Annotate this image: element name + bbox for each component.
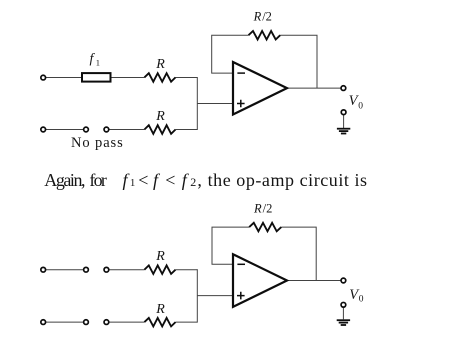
wire bus to op-amp plus input (bottom circuit) (197, 295, 233, 297)
op-amp U2 minus sign (237, 263, 245, 265)
terminal circle gap-left (bottom circuit branch 2) (84, 320, 89, 325)
filter box f1 (82, 73, 111, 82)
wire gap to resistor R (top circuit branch 2) (109, 129, 144, 131)
feedback resistor R/2 (bottom circuit) (249, 223, 281, 232)
wire feedback resistor R/2 to output node (top circuit) (280, 35, 317, 88)
wire op-amp minus input to feedback loop (top circuit) (212, 35, 249, 73)
feedback resistor R/2 (top circuit) (249, 31, 281, 40)
wire op-amp output to V0 terminal (bottom circuit) (287, 280, 341, 282)
terminal circle gap-right (bottom circuit branch 2) (104, 320, 109, 325)
svg-text:R: R (155, 249, 165, 264)
wire input2 to gap (bottom circuit) (46, 321, 83, 323)
wire gap to resistor R (bottom circuit branch 2) (109, 321, 144, 323)
svg-text:1: 1 (130, 177, 136, 189)
ground symbol (bottom circuit) (337, 320, 350, 325)
wire resistor to bus (bottom circuit branch 1) (176, 269, 198, 271)
wire op-amp output to V0 terminal (top circuit) (287, 87, 341, 89)
svg-text:0: 0 (358, 101, 363, 111)
terminal circle gap-left "No pass" (top circuit) (84, 127, 89, 132)
wire op-amp minus input to feedback loop (bottom circuit) (212, 227, 249, 264)
svg-text:R: R (155, 57, 165, 72)
wire input1 to gap (bottom circuit) (46, 269, 83, 271)
resistor R (top circuit branch 2) (144, 125, 175, 134)
terminal circle input1 (top circuit) (41, 75, 46, 80)
svg-text:f: f (182, 170, 190, 190)
wire input1 to f1 box (top circuit) (46, 77, 81, 79)
wire ground stem (bottom circuit) (342, 307, 344, 319)
svg-text:<: < (165, 170, 175, 190)
svg-text:Again,: Again, (44, 170, 85, 190)
terminal circle gap-left (bottom circuit branch 1) (84, 267, 89, 272)
resistor R (top circuit branch 1) (144, 73, 175, 82)
wire input bus vertical (top circuit) (196, 77, 198, 130)
svg-text:for: for (89, 170, 107, 190)
resistor R (bottom circuit branch 2) (144, 318, 175, 327)
svg-text:2: 2 (190, 175, 196, 189)
op-amp U1 minus sign (237, 72, 245, 74)
wire f1 box to resistor R (top circuit) (112, 77, 145, 79)
resistor R (bottom circuit branch 1) (144, 265, 175, 274)
terminal circle gap-right (bottom circuit branch 1) (104, 267, 109, 272)
op-amp U1 plus sign (237, 100, 245, 108)
wire bus to op-amp plus input (top circuit) (197, 103, 233, 105)
svg-text:the op-amp circuit is: the op-amp circuit is (208, 170, 368, 190)
op-amp U1 triangle (233, 62, 287, 115)
output terminal circle (top circuit) (341, 86, 346, 91)
terminal circle input2 (bottom circuit) (41, 320, 46, 325)
wire resistor to bus (top circuit branch 2) (176, 129, 198, 131)
output terminal circle (bottom circuit) (341, 278, 346, 283)
wire resistor to bus (bottom circuit branch 2) (176, 321, 198, 323)
wire gap to resistor R (bottom circuit branch 1) (109, 269, 144, 271)
svg-text:/2: /2 (263, 202, 273, 216)
terminal circle input2 (top circuit) (41, 127, 46, 132)
svg-text:R: R (155, 109, 165, 124)
svg-text:R: R (253, 202, 262, 216)
svg-text:No pass: No pass (71, 135, 124, 151)
svg-text:R: R (253, 10, 262, 24)
op-amp U2 plus sign (237, 292, 245, 300)
ground terminal circle (bottom circuit) (341, 302, 346, 307)
svg-text:f: f (90, 52, 96, 67)
terminal circle gap-right "No pass" (top circuit) (104, 127, 109, 132)
svg-text:R: R (155, 302, 165, 317)
wire input2 to gap (top circuit) (46, 129, 83, 131)
op-amp U2 triangle (233, 254, 287, 307)
wire input bus vertical (bottom circuit) (196, 269, 198, 322)
terminal circle input1 (bottom circuit) (41, 267, 46, 272)
svg-text:1: 1 (96, 57, 100, 67)
svg-text:,: , (197, 170, 202, 190)
ground symbol (top circuit) (337, 129, 350, 134)
svg-text:f: f (153, 170, 161, 190)
svg-text:0: 0 (359, 295, 364, 305)
wire ground stem (top circuit) (343, 115, 345, 128)
wire resistor R to bus corner (top circuit branch 1) (176, 77, 198, 79)
svg-text:<: < (138, 170, 148, 190)
ground terminal circle (top circuit) (341, 110, 346, 115)
svg-text:/2: /2 (262, 10, 272, 24)
wire feedback resistor R/2 to output node (bottom circuit) (281, 227, 316, 280)
